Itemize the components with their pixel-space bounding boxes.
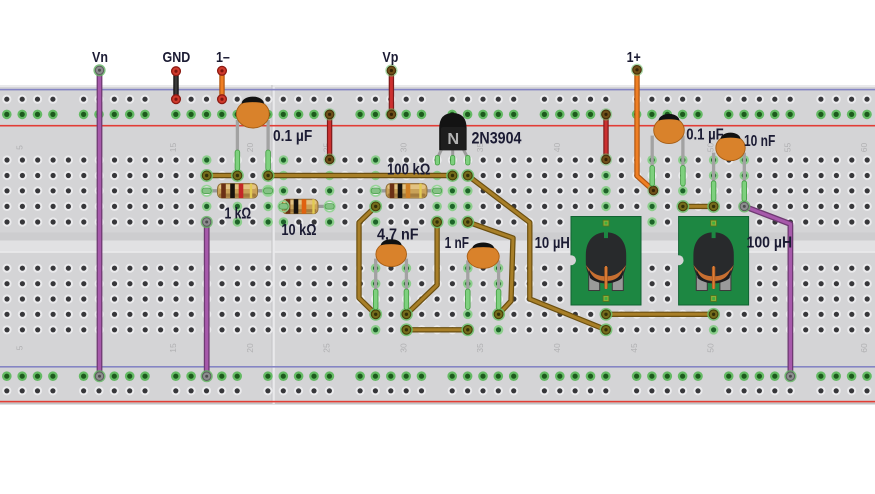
svg-text:15: 15 <box>168 343 178 353</box>
svg-text:30: 30 <box>398 343 408 353</box>
wire tan zigzag col34 rowB to col43 rowJ <box>462 170 611 336</box>
wire 1+ (orange, to col46 rowC) <box>632 64 659 196</box>
wire Vp (red) <box>386 65 397 120</box>
wire tan zigzag col28 rowD to col28 rowI <box>359 201 381 320</box>
node label Vp <box>382 49 398 65</box>
svg-text:5: 5 <box>14 145 24 150</box>
value label 1 kOhm (R1) <box>225 205 252 223</box>
svg-text:N: N <box>447 131 459 148</box>
svg-text:40: 40 <box>552 143 562 153</box>
breadboard <box>0 85 875 405</box>
value label 10 uH (L1) <box>535 235 570 252</box>
resistor R3 100 kOhm <box>370 184 442 199</box>
capacitor C5 1 nF (col34/36 rowH) <box>466 242 501 309</box>
value label 0.1 uF (C2) <box>686 126 724 143</box>
svg-text:60: 60 <box>859 143 869 153</box>
wire GND (black) <box>172 67 181 104</box>
svg-text:1 kΩ: 1 kΩ <box>225 205 252 223</box>
value label 0.1 uF (C1) <box>273 127 312 145</box>
svg-text:10 nF: 10 nF <box>744 131 776 149</box>
wire tan col34 rowE to col36 rowI <box>462 216 513 320</box>
inductor L2 100 uH module <box>674 217 749 306</box>
value label 10 kOhm (R2) <box>281 222 316 240</box>
wire tan col17-col19 rowB <box>201 170 243 181</box>
node label Vn <box>92 49 108 65</box>
svg-text:1 nF: 1 nF <box>445 233 470 251</box>
wire tan col48-col50 rowD <box>677 201 719 212</box>
wire tan col30-col34 rowJ <box>401 324 474 335</box>
value label 2N3904 (Q1) <box>472 129 522 147</box>
value label 1 nF (C5) <box>445 233 470 251</box>
transistor Q1 2N3904 <box>435 113 470 165</box>
svg-text:60: 60 <box>859 343 869 353</box>
svg-text:50: 50 <box>706 143 716 153</box>
svg-text:45: 45 <box>629 343 639 353</box>
node label 1- <box>216 49 230 65</box>
capacitor C2 0.1 uF (col46/48 rowB) <box>650 114 685 186</box>
svg-text:5: 5 <box>14 345 24 350</box>
wire purple col52 rowD to bottom rail (right) <box>739 201 796 381</box>
wire tan col32 rowE to col30 rowI <box>401 216 443 320</box>
wire tan long col21-col33 rowB <box>263 170 459 181</box>
svg-text:Vp: Vp <box>382 49 398 65</box>
svg-text:Vn: Vn <box>92 49 108 65</box>
svg-text:55: 55 <box>782 143 792 153</box>
svg-text:25: 25 <box>322 343 332 353</box>
inductor L1 10 uH module <box>566 217 641 306</box>
svg-text:0.1 µF: 0.1 µF <box>273 127 312 145</box>
capacitor C1 0.1 uF (col19/21 rowA) <box>235 97 270 171</box>
value label 10 nF (C3) <box>744 131 776 149</box>
svg-text:20: 20 <box>245 143 255 153</box>
svg-text:35: 35 <box>475 343 485 353</box>
svg-text:2N3904: 2N3904 <box>472 129 522 147</box>
node label GND <box>163 49 191 65</box>
svg-text:1+: 1+ <box>627 49 641 65</box>
svg-text:50: 50 <box>706 343 716 353</box>
capacitor C4 4.7 nF (col28/30 rowH) <box>373 239 408 309</box>
svg-text:15: 15 <box>168 143 178 153</box>
wire 1- (orange) <box>218 66 227 103</box>
wire tan col43-col50 rowI <box>600 309 719 320</box>
svg-text:20: 20 <box>245 343 255 353</box>
svg-text:4.7 nF: 4.7 nF <box>377 226 419 244</box>
svg-text:GND: GND <box>163 49 191 65</box>
wire purple col17 rowE to bottom rail <box>201 217 212 382</box>
resistor R2 10 kOhm <box>278 199 335 214</box>
svg-text:40: 40 <box>552 343 562 353</box>
value label 100 kOhm (R3) <box>387 162 431 179</box>
wire Vn (purple, top to bottom rail) <box>94 65 105 382</box>
svg-text:10 kΩ: 10 kΩ <box>281 222 316 240</box>
value label 100 uH (L2) <box>747 234 793 252</box>
svg-text:1–: 1– <box>216 49 230 65</box>
svg-text:100 kΩ: 100 kΩ <box>387 162 431 179</box>
resistor R1 1 kOhm <box>201 184 273 199</box>
svg-text:100 µH: 100 µH <box>747 234 793 252</box>
wire red jumper rail to col25 rowA <box>324 109 335 165</box>
node label 1+ <box>627 49 641 65</box>
wire red jumper rail to col43 rowA <box>601 109 612 165</box>
svg-text:0.1 µF: 0.1 µF <box>686 126 724 143</box>
capacitor C3 10 nF (col50/52 rowC) <box>711 133 746 202</box>
svg-text:10 µH: 10 µH <box>535 235 570 252</box>
value label 4.7 nF (C4) <box>377 226 419 244</box>
svg-text:30: 30 <box>398 143 408 153</box>
